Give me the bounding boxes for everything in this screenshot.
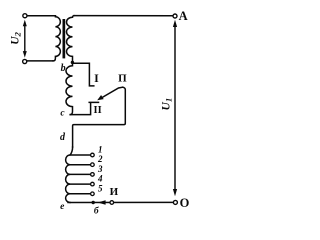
svg-text:U1: U1 <box>161 98 174 111</box>
terminal A <box>173 14 177 18</box>
svg-text:И: И <box>110 186 119 198</box>
label U1 <box>161 98 174 111</box>
tap 2 <box>91 163 95 167</box>
terminal T2 (input bottom-left) <box>23 59 27 63</box>
svg-text:b: b <box>61 63 66 74</box>
bottom wire e to O <box>68 201 173 203</box>
tap 3 <box>91 173 95 177</box>
label U2 <box>10 31 23 44</box>
svg-text:5: 5 <box>98 183 103 193</box>
svg-text:d: d <box>60 132 66 143</box>
primary winding W1 <box>53 16 60 61</box>
node b <box>71 61 74 64</box>
slider arrow <box>98 200 106 205</box>
svg-text:б: б <box>94 205 100 216</box>
svg-text:c: c <box>60 108 65 118</box>
svg-text:O: O <box>180 196 190 210</box>
wire switch pole to d <box>73 87 126 147</box>
terminal T1 (input top-left) <box>23 14 27 18</box>
wire c to contact II <box>70 102 98 114</box>
slider contact И circle <box>110 201 114 205</box>
wire secondary top to A <box>74 15 173 17</box>
tap line 2 <box>70 164 90 166</box>
svg-text:II: II <box>94 105 102 116</box>
terminal O <box>173 200 177 204</box>
svg-text:e: e <box>60 202 65 212</box>
svg-text:4: 4 <box>97 174 103 184</box>
U2 voltage arrow <box>23 20 27 58</box>
secondary winding section A-b <box>67 16 75 63</box>
winding section b-c <box>66 62 73 114</box>
winding section d-e with taps <box>66 147 73 202</box>
svg-text:2: 2 <box>97 154 103 164</box>
svg-text:3: 3 <box>97 164 103 174</box>
tap line 5 <box>70 193 90 195</box>
svg-text:I: I <box>94 71 99 85</box>
switch arm П <box>97 87 122 100</box>
tap 1 <box>91 153 95 157</box>
tap 4 <box>91 182 95 186</box>
core <box>63 19 66 58</box>
tap line 4 <box>70 183 90 185</box>
svg-text:П: П <box>118 73 127 85</box>
wire T1 to primary top <box>27 15 55 17</box>
wire primary bottom to T2 <box>27 60 53 62</box>
svg-text:1: 1 <box>98 145 103 155</box>
tap line 1 <box>70 154 90 156</box>
U1 voltage arrow <box>173 20 177 196</box>
tap 5 <box>91 192 95 196</box>
svg-text:U2: U2 <box>10 31 23 44</box>
junction dot tap 6 <box>92 201 95 204</box>
wire b to contact I <box>72 63 93 86</box>
svg-text:A: A <box>179 9 188 23</box>
tap line 3 <box>70 173 90 175</box>
